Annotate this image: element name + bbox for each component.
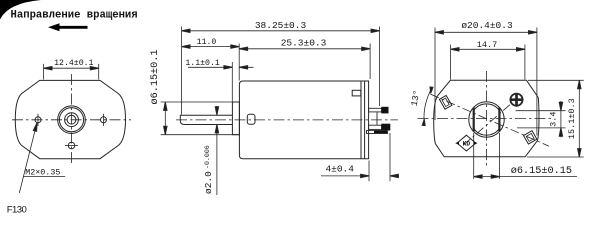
dim 38.25 line: [182, 30, 380, 32]
crimp tab: [352, 90, 361, 96]
svg-text:ø6.15±0.1: ø6.15±0.1: [150, 49, 161, 104]
motor body outline (rear view): [434, 80, 539, 157]
dim 6.15 extension lines: [161, 102, 240, 135]
svg-text:38.25±0.3: 38.25±0.3: [255, 20, 307, 31]
dim 6.15 line: [164, 102, 166, 135]
svg-text:11.0: 11.0: [197, 38, 217, 47]
svg-text:F130: F130: [7, 204, 27, 215]
svg-text:13°: 13°: [410, 89, 423, 107]
end cap seam: [364, 81, 366, 159]
dim 6.15±0.15 extension lines: [474, 133, 500, 179]
terminal rear top-left: [439, 95, 451, 109]
dim 11.0 line: [182, 46, 240, 48]
pin bracket: [376, 112, 378, 125]
centerline horizontal (left view): [12, 119, 131, 121]
dim 20.4 line: [435, 31, 537, 33]
dim 1.1 extension line: [231, 62, 233, 102]
shaft: [67, 115, 76, 124]
dim 14.7 line: [451, 48, 525, 50]
motor body outline (front view): [15, 80, 125, 158]
svg-text:4±0.4: 4±0.4: [325, 163, 354, 174]
dim 38.25 extension lines: [182, 27, 380, 115]
bearing boss rear inner: [474, 104, 499, 135]
dim 20.4 extension lines: [435, 28, 537, 136]
leader M2x0.35: [19, 123, 37, 193]
dim 14.7 extension lines: [451, 45, 525, 80]
terminal rear bottom-right: [524, 131, 537, 144]
boss flat left: [473, 108, 475, 132]
motor body (side): [239, 81, 368, 159]
svg-text:-0.006: -0.006: [204, 145, 211, 169]
diagonal axis through logo and mark: [464, 97, 519, 145]
svg-text:KD: KD: [463, 141, 471, 148]
dim 15.1 line: [578, 80, 580, 157]
shaft axis centerline: [176, 119, 398, 121]
shaft hole outer: [65, 113, 79, 127]
dim 15.1 extension lines: [527, 80, 584, 157]
mounting hole left: [35, 117, 41, 123]
dim 4±0.4 lines: [321, 175, 398, 177]
svg-text:15.1±0.3: 15.1±0.3: [567, 98, 577, 139]
title arrow (left pointing): [48, 23, 88, 31]
svg-text:14.7: 14.7: [477, 40, 497, 50]
terminal pin lower: [369, 125, 382, 129]
vent hole on body: [247, 114, 255, 124]
svg-text:Направление вращения: Направление вращения: [11, 9, 138, 21]
dim 12.4±0.1 line: [44, 67, 99, 69]
dim 6.15±0.15 line: [474, 176, 577, 178]
centerline vertical (rear view): [486, 71, 488, 168]
bearing boss rear outer: [469, 102, 504, 137]
13 degree angle arc: [424, 87, 432, 122]
can rear edge: [360, 81, 362, 159]
bearing boss inner ring: [59, 108, 83, 132]
bearing boss outer circle: [58, 106, 86, 134]
boss flat right: [498, 108, 500, 132]
dim 1.1 lines: [188, 66, 254, 68]
dim 25.3 line: [239, 48, 370, 50]
svg-text:25.3±0.3: 25.3±0.3: [281, 37, 327, 48]
svg-text:ø6.15±0.15: ø6.15±0.15: [511, 166, 572, 177]
svg-text:ø20.4±0.3: ø20.4±0.3: [461, 20, 513, 31]
svg-text:ø2.0: ø2.0: [203, 171, 214, 194]
centerline vertical (left view): [71, 74, 73, 166]
svg-text:12.4±0.1: 12.4±0.1: [54, 59, 93, 68]
dim 2.0 line: [216, 106, 218, 195]
shaft: [180, 115, 232, 124]
dim 12.4±0.1 extension lines: [44, 64, 99, 80]
terminal pin upper: [369, 108, 382, 112]
dim 4±0.4 extension lines: [369, 133, 390, 181]
svg-text:M2×0.35: M2×0.35: [25, 167, 60, 177]
mounting hole right: [101, 117, 107, 123]
svg-text:3.4: 3.4: [548, 112, 558, 127]
plus mark (positive terminal): [510, 94, 522, 106]
lower plate: [367, 130, 388, 133]
bushing (6.15 boss): [232, 102, 239, 135]
dim 25.3 extension lines: [239, 44, 370, 81]
KD logo diamond: [457, 135, 476, 151]
page corner curl (black): [0, 0, 41, 20]
bottom hole: [68, 142, 75, 149]
centerline horizontal (rear view): [418, 118, 552, 120]
diagonal axis through terminals: [431, 94, 550, 146]
svg-text:1.1±0.1: 1.1±0.1: [185, 59, 219, 68]
dim 3.4 line: [560, 101, 562, 137]
dim 3.4 extension lines: [516, 111, 566, 128]
